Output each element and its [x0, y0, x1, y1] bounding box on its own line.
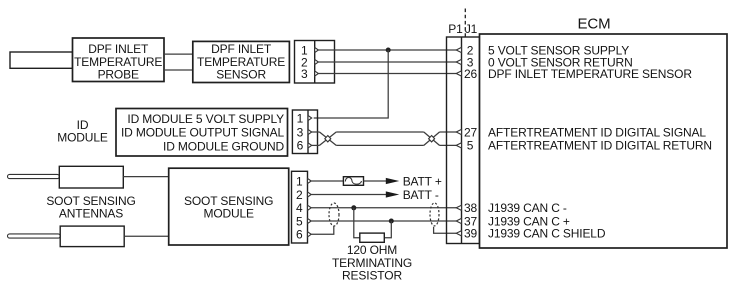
svg-text:AFTERTREATMENT ID DIGITAL SIGN: AFTERTREATMENT ID DIGITAL SIGNAL [488, 125, 706, 139]
soot sensing antenna upper rod [8, 174, 60, 178]
ID pin 1 connector symbol [308, 115, 312, 120]
svg-text:39: 39 [464, 227, 478, 241]
socket pin27 [456, 129, 461, 134]
DPF inlet temperature sensor box [193, 41, 290, 82]
socket pin2 [456, 47, 461, 52]
ID MODULE label [57, 118, 108, 145]
wire sensor pin1 to ECM pin2 [318, 49, 456, 51]
connector P1 J1 box [447, 37, 480, 244]
svg-text:J1939 CAN C SHIELD: J1939 CAN C SHIELD [488, 227, 606, 241]
wire shield from pin6 [311, 226, 334, 234]
svg-text:26: 26 [464, 67, 478, 81]
svg-text:DPF INLET: DPF INLET [211, 42, 272, 56]
ECM box [480, 34, 728, 248]
svg-text:4: 4 [296, 201, 303, 215]
wire shield to ECM pin39 [434, 227, 457, 233]
ID pin 3 connector symbol [308, 129, 312, 134]
svg-text:AFTERTREATMENT ID DIGITAL RETU: AFTERTREATMENT ID DIGITAL RETURN [488, 139, 712, 153]
svg-text:ID MODULE OUTPUT SIGNAL: ID MODULE OUTPUT SIGNAL [121, 126, 284, 140]
svg-text:2: 2 [296, 188, 303, 202]
ID module pin block pins 1 3 6 [292, 110, 317, 154]
wire CAN C + to ECM pin37 [311, 220, 456, 222]
svg-text:J1: J1 [465, 22, 478, 36]
socket pin37 [456, 218, 461, 223]
wire ID pin6 segment [312, 144, 320, 146]
wire pin2 to BATT- [311, 194, 387, 196]
BATT+ arrow [386, 178, 400, 184]
svg-text:1: 1 [297, 111, 304, 125]
soot pin 6 connector symbol [308, 232, 312, 237]
ID pin 6 connector symbol [308, 143, 312, 148]
resistor drop wire right [384, 221, 391, 238]
svg-text:MODULE: MODULE [57, 131, 108, 145]
svg-text:27: 27 [464, 125, 478, 139]
socket pin5 [456, 143, 461, 148]
wire CAN C - to ECM pin38 [311, 207, 456, 209]
svg-text:ID MODULE GROUND: ID MODULE GROUND [163, 139, 284, 153]
soot pin 1 connector symbol [308, 178, 312, 183]
sensor pin 1 connector symbol [315, 47, 319, 52]
wire to ECM pin27 [440, 131, 457, 133]
svg-text:6: 6 [296, 228, 303, 242]
SOOT SENSING ANTENNAS label [46, 194, 135, 220]
soot pin 4 connector symbol [308, 205, 312, 210]
svg-text:P1: P1 [448, 22, 463, 36]
sensor pin block pins 1 2 3 [295, 41, 335, 84]
wire ID return run [336, 144, 424, 146]
wire probe to sensor lower [164, 69, 193, 71]
wire antenna upper to module [123, 176, 168, 178]
shield ellipse right [430, 203, 439, 226]
socket pin3 [456, 59, 461, 64]
wire antenna lower to module [124, 235, 169, 237]
wire probe to sensor upper [164, 53, 193, 55]
wire pin1 to breaker [311, 180, 343, 182]
twisted pair crossing left [320, 132, 337, 145]
svg-text:ANTENNAS: ANTENNAS [59, 206, 123, 220]
svg-text:5: 5 [467, 139, 474, 153]
J1 pin numbers [464, 43, 478, 240]
svg-text:ID MODULE 5 VOLT SUPPLY: ID MODULE 5 VOLT SUPPLY [127, 112, 284, 126]
120 ohm terminating resistor [360, 233, 385, 242]
resistor label [332, 243, 412, 283]
connector mating dashed line [464, 9, 466, 37]
wire ID signal run [336, 131, 424, 133]
svg-text:DPF INLET: DPF INLET [88, 42, 149, 56]
twisted pair crossing right [424, 132, 440, 145]
soot pin 2 connector symbol [308, 192, 312, 197]
ID module box [116, 109, 288, 157]
sensor pin 2 connector symbol [315, 59, 319, 64]
svg-text:J1939 CAN C -: J1939 CAN C - [488, 201, 567, 215]
soot sensing antenna upper body [59, 166, 123, 188]
svg-text:RESISTOR: RESISTOR [342, 269, 402, 283]
wire to ECM pin5 [440, 144, 457, 146]
resistor drop wire left [354, 208, 360, 238]
svg-text:SENSOR: SENSOR [216, 68, 266, 82]
DPF inlet temperature probe cylinder [10, 52, 73, 68]
svg-text:5: 5 [296, 214, 303, 228]
junction dot CAN - [351, 205, 356, 210]
svg-text:BATT -: BATT - [403, 188, 439, 202]
BATT- arrow [386, 191, 400, 197]
wire sensor pin2 to ECM pin3 [318, 61, 456, 63]
socket pin26 [456, 71, 461, 76]
svg-text:6: 6 [297, 139, 304, 153]
svg-text:3: 3 [301, 67, 308, 81]
soot module pin block pins 1 2 4 5 6 [292, 171, 308, 243]
svg-text:1: 1 [296, 174, 303, 188]
ECM pin labels [488, 43, 712, 240]
socket pin38 [456, 205, 461, 210]
circuit breaker symbol [343, 177, 363, 186]
socket pin39 [456, 231, 461, 236]
DPF inlet temperature probe box [73, 38, 165, 82]
svg-text:PROBE: PROBE [98, 68, 139, 82]
wire sensor pin3 to ECM pin26 [318, 73, 456, 75]
wire ID pin3 segment [312, 131, 320, 133]
riser wire junction to ID module pin1 [314, 50, 389, 118]
sensor pin 3 connector symbol [315, 71, 319, 76]
svg-text:ECM: ECM [578, 16, 611, 33]
svg-text:DPF INLET TEMPERATURE SENSOR: DPF INLET TEMPERATURE SENSOR [488, 67, 692, 81]
wire breaker to BATT+ [364, 180, 388, 182]
soot sensing antenna lower body [60, 226, 124, 247]
svg-text:TERMINATING: TERMINATING [332, 256, 412, 270]
svg-text:38: 38 [464, 201, 478, 215]
soot sensing module box [169, 168, 289, 245]
junction dot 5V supply [386, 48, 391, 53]
soot sensing antenna lower rod [8, 234, 61, 238]
shield ellipse left [329, 203, 339, 226]
svg-text:MODULE: MODULE [203, 207, 254, 221]
soot pin 5 connector symbol [308, 218, 312, 223]
svg-text:120 OHM: 120 OHM [347, 243, 397, 257]
junction dot CAN + [389, 219, 394, 224]
svg-text:3: 3 [297, 125, 304, 139]
svg-text:BATT +: BATT + [403, 174, 442, 188]
